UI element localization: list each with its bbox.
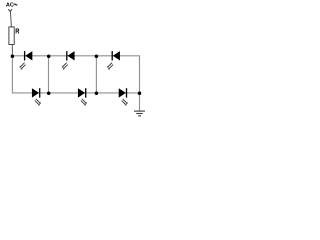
- LED D1 (top row, pointing left): [20, 51, 33, 69]
- cathode bar: [39, 88, 41, 97]
- AC waveform tilde mark: [14, 4, 17, 5]
- LED D3 (top row, pointing left): [107, 51, 120, 69]
- node junction dot bottom-right: [95, 92, 99, 96]
- wire: terminal to resistor: [10, 11, 11, 27]
- node junction dot top-mid: [47, 54, 51, 58]
- node junction dot bottom-mid: [47, 92, 51, 96]
- node junction dot ground: [138, 92, 142, 96]
- wire: middle vertical 2: [95, 56, 97, 93]
- anode triangle: [25, 51, 32, 60]
- ground: [134, 111, 145, 116]
- emission arrows: [108, 63, 113, 69]
- emission arrows: [63, 63, 68, 69]
- anode triangle: [113, 51, 120, 60]
- cathode bar: [24, 51, 26, 60]
- wire: middle vertical 1: [48, 56, 50, 93]
- LED D4 (bottom row, pointing right): [32, 88, 41, 105]
- anode triangle: [78, 88, 85, 97]
- anode triangle: [32, 88, 39, 97]
- svg-text:AC: AC: [6, 3, 14, 9]
- wire: top rail turning down right side to ground: [12, 56, 139, 111]
- LED D6 (bottom row, pointing right): [119, 88, 128, 105]
- LED D2 (top row, pointing left): [62, 51, 75, 69]
- background: [0, 0, 150, 125]
- cathode bar: [85, 88, 87, 97]
- LED D5 (bottom row, pointing right): [78, 88, 87, 105]
- resistor R: [9, 27, 14, 45]
- node junction dot top-right: [95, 54, 99, 58]
- cathode bar: [126, 88, 128, 97]
- emission arrows: [122, 99, 127, 105]
- svg-text:R: R: [15, 29, 19, 36]
- node junction dot top-left: [11, 54, 15, 58]
- wire: left vertical turning into bottom rail: [12, 56, 139, 93]
- anode triangle: [119, 88, 126, 97]
- emission arrows: [81, 99, 86, 105]
- terminal (input fork): [8, 9, 12, 11]
- wire: resistor to top rail: [11, 45, 13, 56]
- emission arrows: [35, 99, 40, 105]
- cathode bar: [111, 51, 113, 60]
- cathode bar: [66, 51, 68, 60]
- anode triangle: [67, 51, 74, 60]
- emission arrows: [21, 63, 26, 69]
